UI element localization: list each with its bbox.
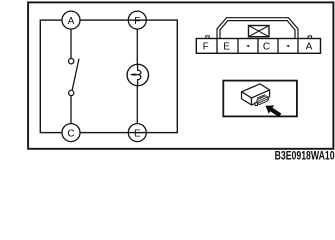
svg-text:C: C — [263, 42, 270, 53]
svg-text:C: C — [67, 128, 74, 139]
svg-text:A: A — [306, 42, 313, 53]
svg-text:B3E0918WA10: B3E0918WA10 — [275, 148, 335, 162]
svg-text:E: E — [223, 42, 230, 53]
svg-text:F: F — [203, 42, 209, 53]
svg-text:E: E — [134, 128, 141, 139]
svg-text:A: A — [68, 16, 75, 27]
svg-text:F: F — [134, 16, 140, 27]
